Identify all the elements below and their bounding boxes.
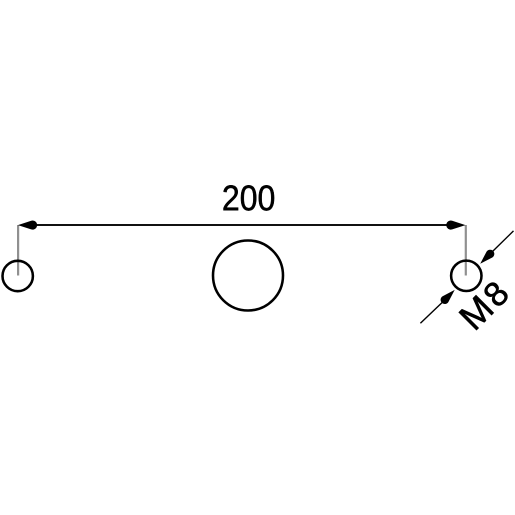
thread label M8 (rotated) — [459, 279, 510, 330]
hole center (large circle) — [213, 241, 283, 311]
hole right M8 (small circle) — [451, 261, 481, 291]
leader line upper-right — [493, 231, 514, 252]
dimension text 200 — [223, 185, 274, 210]
dimension arrow left — [18, 221, 37, 230]
hole left (small circle) — [3, 261, 33, 291]
dimension line 200 — [22, 224, 462, 226]
dimension arrow right — [446, 221, 465, 230]
extension line right (from right hole center up to dimension line) — [465, 225, 467, 276]
leader arrow upper (points to right hole) — [480, 250, 494, 264]
leader arrow lower (points to right hole) — [441, 290, 455, 304]
leader line lower-left — [420, 302, 442, 323]
extension line left (from left hole center up to dimension line) — [17, 225, 19, 276]
